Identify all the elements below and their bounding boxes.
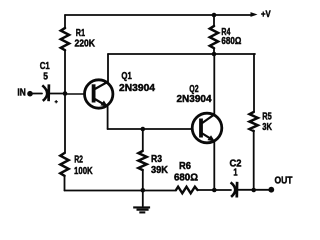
capacitor C1 xyxy=(42,84,49,101)
node IN terminal xyxy=(27,91,33,97)
wire R5 top lead xyxy=(253,54,255,112)
wire left vertical bottom xyxy=(64,176,66,191)
svg-text:5: 5 xyxy=(43,71,48,83)
resistor R3 xyxy=(138,151,146,170)
+V arrow xyxy=(251,12,258,17)
svg-text:39K: 39K xyxy=(151,164,168,176)
wire top rail xyxy=(65,14,252,16)
wire R3 top lead xyxy=(142,129,144,151)
wire left vertical lower xyxy=(64,94,66,154)
node: input junction xyxy=(63,91,68,96)
wire collector box top xyxy=(108,53,255,55)
node: R5 / rail junction xyxy=(251,188,256,193)
svg-text:+V: +V xyxy=(261,9,271,19)
wire left vertical middle xyxy=(64,51,66,94)
resistor R4 xyxy=(210,26,218,48)
svg-text:2N3904: 2N3904 xyxy=(119,82,155,94)
node: emitter/R3 junction xyxy=(141,127,146,132)
wire input xyxy=(30,93,42,95)
svg-text:IN: IN xyxy=(17,87,25,99)
wire left vertical top (R1 top lead) xyxy=(64,15,66,28)
node: R4/Q2 collector junction xyxy=(212,52,217,57)
node: R3/ground junction xyxy=(141,188,146,193)
svg-text:R6: R6 xyxy=(179,160,191,172)
node OUT terminal xyxy=(268,187,274,193)
transistor Q1 xyxy=(85,80,113,108)
transistor Q2 xyxy=(192,113,222,143)
wire R5 bottom lead xyxy=(253,131,255,190)
svg-text:100K: 100K xyxy=(74,165,93,177)
wire Q2 collector vertical xyxy=(213,54,215,114)
svg-text:R2: R2 xyxy=(74,154,83,166)
svg-text:3K: 3K xyxy=(262,121,272,133)
resistor R1 xyxy=(61,28,69,50)
wire bottom rail right of C2 xyxy=(239,189,272,191)
node: top rail / R4 junction xyxy=(212,13,217,18)
svg-text:680Ω: 680Ω xyxy=(174,172,198,184)
wire R4 top lead xyxy=(213,15,215,26)
resistor R2 xyxy=(60,153,68,176)
svg-text:2N3904: 2N3904 xyxy=(177,93,212,105)
svg-text:OUT: OUT xyxy=(275,175,293,187)
svg-text:680Ω: 680Ω xyxy=(221,35,241,47)
wire bottom rail mid xyxy=(198,189,232,191)
svg-text:1: 1 xyxy=(233,167,237,179)
C1 polarity + xyxy=(55,100,58,103)
ground stub xyxy=(142,190,144,206)
wire R3 bottom lead xyxy=(142,170,144,190)
wire emitter to Q2 base xyxy=(108,128,193,130)
node: Q2 emitter / rail junction xyxy=(212,188,217,193)
capacitor C2 xyxy=(231,182,238,198)
ground xyxy=(133,207,150,212)
resistor R5 xyxy=(249,112,257,131)
wire Q1 emitter vertical xyxy=(107,106,109,129)
wire bottom rail left xyxy=(65,190,177,192)
wire Q1 collector vertical xyxy=(107,54,109,82)
wire R4 bottom lead xyxy=(213,49,215,55)
resistor R6 xyxy=(176,187,198,194)
wire Q1 base xyxy=(65,93,85,95)
svg-text:Q1: Q1 xyxy=(121,70,132,82)
wire Q2 emitter vertical xyxy=(213,141,215,190)
wire C1 to junction xyxy=(50,93,66,95)
svg-text:220K: 220K xyxy=(75,38,96,50)
